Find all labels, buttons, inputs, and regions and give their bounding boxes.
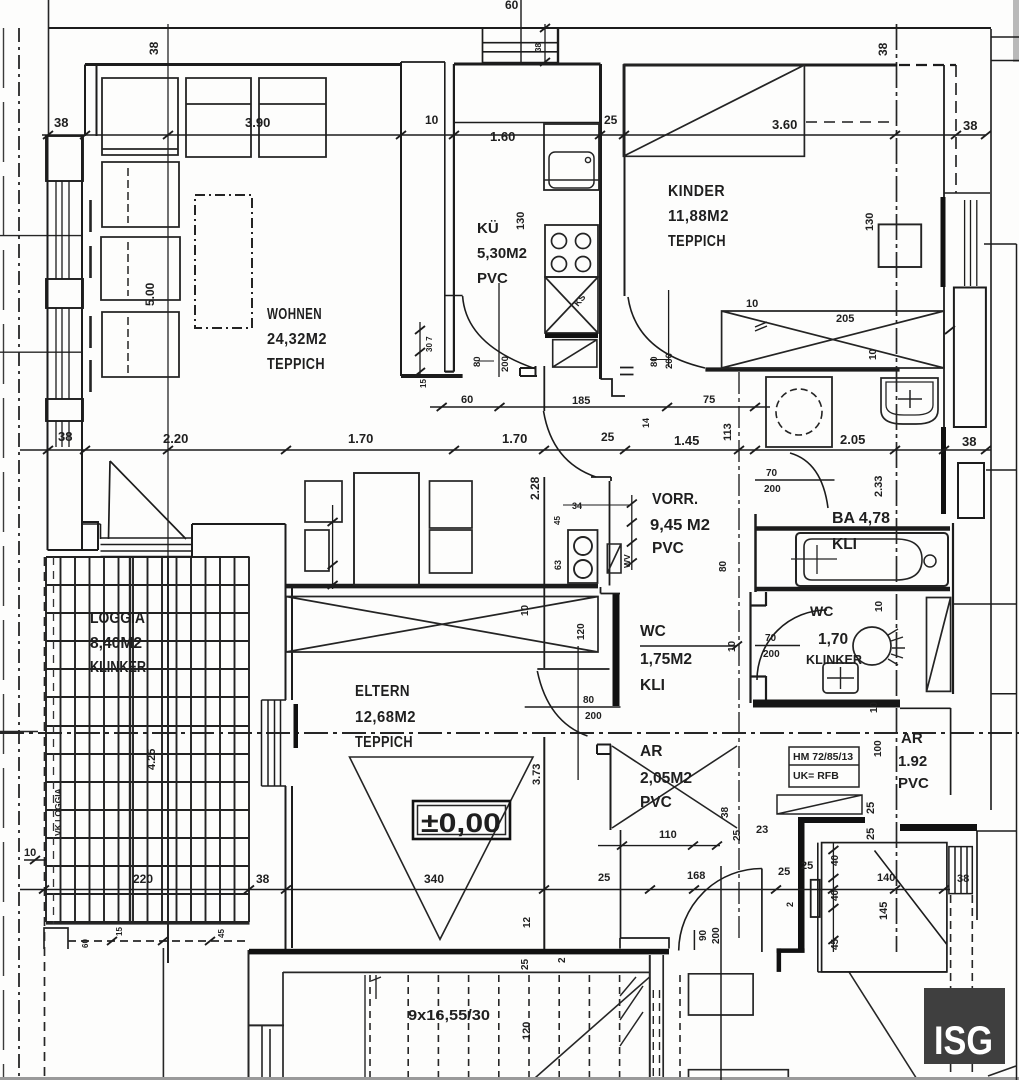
svg-text:2: 2 [557, 957, 568, 963]
kinder right glazing [965, 200, 977, 286]
svg-text:9,45 M2: 9,45 M2 [650, 517, 710, 534]
ar192 right wall [950, 708, 952, 795]
svg-text:PVC: PVC [640, 794, 672, 811]
eltern bottom thick wall [249, 949, 669, 955]
ar192 shelf box [777, 795, 862, 814]
main dim line y890 [20, 889, 950, 891]
ticks y845 [617, 842, 722, 850]
svg-text:80: 80 [649, 356, 660, 367]
kue door dim vertical [498, 283, 500, 377]
kitchen sink tap [585, 157, 590, 162]
svg-text:15: 15 [115, 927, 124, 936]
svg-text:10: 10 [869, 701, 880, 713]
svg-text:PVC: PVC [652, 540, 684, 557]
right band bath pier [958, 463, 984, 518]
kinder door dim vertical [668, 290, 670, 367]
svg-text:200: 200 [763, 649, 780, 660]
svg-text:ELTERN: ELTERN [355, 683, 410, 700]
couch table [195, 195, 252, 328]
bathtub drain [924, 555, 936, 567]
svg-text:38: 38 [58, 429, 72, 444]
svg-text:±0,00: ±0,00 [421, 808, 501, 838]
right edge outer line [990, 29, 992, 810]
eltern door leaf [537, 668, 609, 670]
svg-text:75: 75 [703, 394, 715, 406]
svg-text:120: 120 [576, 623, 587, 640]
svg-text:200: 200 [500, 356, 511, 372]
grid axis vertical x895 dash-dot [896, 24, 898, 952]
entrance door arc [679, 868, 762, 950]
ba door arc [790, 453, 828, 508]
svg-text:25: 25 [604, 113, 618, 127]
dashed ext line y122 [806, 121, 897, 123]
wc-vorr wall thick [613, 594, 620, 706]
right edge far line [1016, 244, 1018, 1080]
kitchen top wall [454, 63, 601, 66]
grid axis vertical x739 dash-dot [738, 372, 740, 939]
kitchen right wall [599, 64, 602, 379]
svg-text:80: 80 [583, 695, 595, 706]
svg-text:1.92: 1.92 [898, 753, 927, 770]
svg-text:110: 110 [659, 829, 677, 841]
dim ticks below loggia [107, 937, 215, 945]
kitchen counter top lines [544, 179, 599, 181]
main dim line y450 [20, 449, 991, 451]
shaft right wall [557, 29, 559, 63]
svg-text:ISG: ISG [934, 1019, 993, 1063]
wc170 door arc [757, 610, 827, 680]
entry dim vertical x833 [832, 843, 834, 952]
entry dim line y845 [598, 845, 720, 847]
bathtub inner [804, 539, 922, 580]
eltern door label line [525, 706, 621, 708]
sofa seat 3 [259, 78, 326, 157]
fridge KS crossed box [545, 277, 598, 333]
svg-text:205: 205 [836, 313, 854, 325]
stair arrow snippet bottom right [988, 1066, 1016, 1076]
svg-text:9x16,55/30: 9x16,55/30 [408, 1007, 490, 1024]
svg-text:BA 4,78: BA 4,78 [832, 510, 890, 527]
bathtub outer [796, 533, 948, 586]
hm box [789, 747, 859, 787]
wc label underline [640, 645, 737, 647]
svg-text:25: 25 [778, 866, 790, 878]
svg-text:38: 38 [147, 41, 161, 55]
ar closet cross [612, 746, 737, 828]
stair hatch bottom left [620, 977, 643, 1046]
wohnen left wall top band [85, 65, 97, 137]
svg-text:25: 25 [732, 829, 743, 841]
svg-text:130: 130 [515, 212, 527, 230]
wc170 left wall inner stubs [751, 592, 767, 703]
vorr west wall x544 [543, 366, 545, 411]
loggia grid horizontals [46, 557, 250, 922]
svg-text:8,40M2: 8,40M2 [90, 635, 142, 652]
main dim line y135 [42, 134, 986, 136]
svg-text:10: 10 [746, 298, 758, 310]
left edge tick y731 [0, 731, 38, 733]
wohnen east wall step [591, 477, 611, 586]
svg-text:2.20: 2.20 [163, 431, 188, 446]
svg-text:145: 145 [878, 902, 890, 920]
kinder top wall [623, 64, 897, 67]
kinder right inner line [955, 65, 957, 193]
page bottom border [0, 1077, 1019, 1080]
shaft ticks [540, 24, 550, 66]
svg-text:TEPPICH: TEPPICH [668, 233, 726, 250]
kitchen sink basin [549, 152, 594, 188]
bathtub crosshair [791, 545, 837, 574]
left glazing lines [56, 181, 69, 447]
vorr top wall left [401, 374, 463, 378]
svg-text:KLINKER: KLINKER [90, 659, 146, 676]
corridor niche step [249, 1024, 285, 1026]
ba basin inner [886, 382, 933, 415]
svg-text:10: 10 [425, 113, 439, 127]
svg-text:70: 70 [765, 633, 777, 644]
svg-text:LOGGIA: LOGGIA [90, 610, 145, 627]
svg-text:100: 100 [873, 740, 884, 757]
wc170 left wall outer [749, 592, 751, 703]
svg-text:12,68M2: 12,68M2 [355, 709, 416, 726]
svg-text:2.05: 2.05 [840, 432, 865, 447]
vestibule box [822, 843, 947, 972]
kinder desk [879, 224, 922, 267]
kinder left wall [624, 65, 626, 296]
svg-text:2.28: 2.28 [528, 476, 542, 500]
dim tick 10 left loggia [24, 859, 46, 861]
wc door label line [755, 645, 800, 647]
svg-text:2.33: 2.33 [873, 476, 885, 497]
kinder right black bar [941, 197, 946, 287]
lower corridor vertical [162, 948, 164, 1078]
ar192 top line [900, 707, 951, 709]
svg-text:140: 140 [877, 872, 895, 884]
vorr dim vertical x631 [631, 495, 633, 570]
door sill hatch right [949, 847, 972, 894]
ba bottom wall [755, 587, 950, 592]
svg-text:KÜ: KÜ [477, 220, 499, 237]
kinder top wall dashes right [899, 64, 956, 66]
ticks x833 [828, 846, 838, 944]
right lower wall vertical [976, 831, 978, 920]
svg-text:3.73: 3.73 [531, 764, 543, 785]
svg-text:38: 38 [957, 873, 969, 885]
svg-text:5,30M2: 5,30M2 [477, 245, 527, 262]
svg-text:40: 40 [830, 889, 841, 901]
stair right wall2 [662, 955, 664, 1080]
kinder right pier [954, 288, 986, 428]
svg-text:TEPPICH: TEPPICH [355, 734, 413, 751]
toilet bowl [853, 627, 891, 665]
ba basin tap [898, 390, 922, 408]
svg-text:23: 23 [756, 824, 768, 836]
svg-text:10: 10 [727, 640, 738, 652]
wc dim arrow [732, 642, 742, 650]
svg-text:200: 200 [664, 353, 675, 369]
corridor niche lines [262, 1025, 270, 1078]
left pier 3 [46, 399, 83, 421]
vestibule inner wall vert [817, 843, 819, 972]
toilet hatch [888, 629, 905, 665]
kinder door label line [650, 359, 668, 361]
stair right wall [649, 955, 651, 1080]
eltern V triangle [350, 757, 534, 939]
svg-text:80: 80 [472, 356, 483, 367]
ba door label line [755, 479, 835, 481]
svg-text:24,32M2: 24,32M2 [267, 331, 327, 348]
svg-text:3.60: 3.60 [772, 117, 797, 132]
svg-text:25: 25 [598, 872, 610, 884]
ticks y890 [39, 886, 949, 894]
svg-text:90: 90 [698, 929, 709, 941]
svg-text:11,88M2: 11,88M2 [668, 208, 729, 225]
ba right wall [952, 523, 954, 694]
svg-text:168: 168 [687, 870, 705, 882]
corridor line x721 [720, 866, 722, 1080]
wall cap left of entrance door [620, 938, 669, 949]
lower verticals left of stairs [653, 990, 659, 1080]
vertical line x521 shaft [520, 0, 522, 64]
eltern window leaf black bar [294, 704, 299, 748]
svg-text:63: 63 [553, 560, 563, 570]
kitchen-wohnen wall band [444, 62, 446, 372]
left wall step to loggia [48, 522, 99, 550]
svg-text:TEPPICH: TEPPICH [267, 356, 325, 373]
svg-text:220: 220 [133, 872, 153, 886]
stove burners [552, 234, 591, 272]
kitchen dim line y407 [430, 406, 770, 408]
svg-text:2: 2 [785, 902, 795, 907]
ticks x631 [627, 500, 637, 567]
svg-text:KLINKER: KLINKER [806, 652, 863, 667]
kue door dim label line [478, 360, 494, 362]
dining chair left [305, 481, 342, 522]
kitchen counter front line [454, 122, 600, 124]
svg-text:10: 10 [520, 604, 531, 616]
svg-text:60: 60 [461, 394, 473, 406]
vorr wall cap piece [520, 366, 537, 377]
sofa seat 1 [102, 78, 178, 155]
left pier 2 [46, 279, 83, 308]
svg-text:45: 45 [217, 929, 226, 938]
grid axis vertical dash-dot left [18, 28, 20, 1080]
kinder bottom wall [705, 367, 899, 371]
kitchen sink unit [544, 124, 599, 190]
kinder door arc [628, 297, 705, 368]
eltern east wall lower [543, 737, 545, 949]
svg-text:25: 25 [865, 828, 877, 840]
ar192 left wall thick [798, 823, 805, 952]
stair start tick [364, 975, 366, 1080]
top outer line [49, 27, 992, 29]
loggia inner dashed line [53, 557, 55, 924]
ar closet top wall step [597, 745, 611, 831]
eltern door arc [537, 671, 587, 736]
ba basin [881, 378, 938, 424]
loggia step box bottom left [44, 928, 68, 949]
svg-text:70: 70 [766, 468, 778, 479]
loggia heavy vertical [129, 557, 131, 922]
right edge crossbars [953, 244, 1017, 831]
svg-text:HM 72/85/13: HM 72/85/13 [793, 751, 853, 763]
svg-text:2,05M2: 2,05M2 [640, 770, 692, 787]
dining chair right 1 [430, 481, 473, 528]
vorr basin unit [568, 530, 598, 583]
entry hall wall thick vert [777, 948, 782, 972]
svg-text:45: 45 [830, 938, 841, 950]
top right corner step [991, 37, 1019, 61]
loggia left dashed edge [44, 557, 46, 1080]
svg-text:120: 120 [521, 1022, 533, 1040]
svg-text:40: 40 [830, 854, 841, 866]
svg-text:KINDER: KINDER [668, 183, 725, 200]
svg-text:10: 10 [868, 348, 879, 360]
svg-text:340: 340 [424, 872, 444, 886]
kitchen right wall step [601, 379, 626, 396]
eltern left wall upper [286, 524, 293, 700]
wohnen top wall [85, 63, 401, 66]
wohnen loggia threshold band [83, 524, 192, 557]
corridor right wall x248 [248, 950, 250, 1078]
svg-text:1.70: 1.70 [502, 431, 527, 446]
eltern wardrobe crossed [286, 597, 598, 653]
grid axis horizontal y733 dash-dot [0, 732, 1019, 734]
radiator dashes left wall [89, 200, 92, 392]
svg-text:UK= RFB: UK= RFB [793, 770, 839, 782]
eltern east wall [543, 477, 545, 668]
kitchen lower cabinet [553, 340, 597, 367]
ticks x333 [328, 518, 338, 589]
lower dashed verticals right [951, 895, 973, 1080]
vestibule tick x951 [945, 326, 955, 334]
toilet cistern cross [827, 667, 854, 689]
washing machine drum [776, 389, 822, 435]
kitchen left dim vertical [419, 322, 421, 376]
wohnen bottom wall [286, 584, 599, 587]
ba left wall [754, 514, 757, 592]
kinder wardrobe arrow marks [755, 322, 767, 331]
wc-vorr wall step top [601, 587, 621, 594]
svg-text:25: 25 [865, 802, 877, 814]
svg-text:25: 25 [520, 958, 531, 970]
right band bath black bar [941, 427, 946, 514]
entrance door leaf [761, 869, 763, 953]
vertical line x48 top [48, 0, 50, 136]
kinder right wall band inner [943, 65, 945, 427]
kitchen-wohnen wall band2 [445, 64, 454, 372]
ar192 bottom thick wall [900, 824, 977, 831]
svg-text:38: 38 [54, 115, 68, 130]
kinder wardrobe 205 crossed [722, 311, 944, 368]
svg-text:130: 130 [864, 213, 876, 231]
stair diagonal arrow right [849, 972, 918, 1080]
svg-text:30 7: 30 7 [425, 336, 434, 352]
svg-text:113: 113 [722, 423, 734, 441]
svg-text:34: 34 [572, 501, 582, 511]
svg-text:60: 60 [81, 939, 90, 948]
svg-text:1,75M2: 1,75M2 [640, 651, 692, 668]
eltern loggia window band [262, 700, 287, 786]
svg-text:38: 38 [962, 434, 976, 449]
armchair 2 [101, 237, 180, 300]
svg-text:1,70: 1,70 [818, 631, 848, 648]
svg-text:12: 12 [522, 916, 533, 928]
shaft top center [483, 29, 559, 63]
eltern left wall lower [286, 786, 293, 950]
svg-text:KLI: KLI [832, 536, 857, 553]
corridor wall x620 [620, 830, 622, 938]
kitchen-wohnen wall x401 [400, 62, 402, 376]
vorr heater [607, 544, 621, 573]
entrance door jamb [693, 930, 695, 950]
svg-text:60: 60 [505, 0, 519, 12]
left edge tick y236 [0, 235, 81, 237]
svg-text:WOHNEN: WOHNEN [267, 306, 322, 323]
stair left wall [282, 972, 284, 1080]
svg-text:14: 14 [641, 418, 651, 428]
dining table [354, 473, 419, 585]
grid axis vertical x168 [167, 24, 169, 963]
ISG logo [924, 988, 1005, 1064]
dining chair right 2 [430, 530, 473, 573]
svg-text:WV: WV [622, 554, 632, 568]
loggia heavy vertical2 [167, 557, 169, 963]
svg-text:38: 38 [963, 118, 977, 133]
wc170 bottom wall [753, 700, 900, 708]
svg-text:VK LOGGIA: VK LOGGIA [53, 788, 63, 836]
scan page edge shade [1013, 0, 1019, 62]
svg-text:38: 38 [876, 42, 890, 56]
svg-text:10: 10 [874, 600, 885, 612]
eltern top wall [286, 587, 598, 589]
svg-text:10: 10 [24, 847, 36, 859]
sofa seat 2 [186, 78, 251, 157]
svg-text:200: 200 [711, 927, 722, 944]
lower corridor box [689, 974, 754, 1015]
kinder door jamb cap [620, 368, 634, 375]
svg-text:WC: WC [810, 603, 833, 619]
svg-text:PVC: PVC [477, 270, 508, 287]
loggia grid verticals [46, 557, 249, 922]
svg-text:80: 80 [718, 560, 729, 572]
svg-text:15: 15 [419, 379, 428, 388]
svg-text:4.25: 4.25 [146, 749, 158, 770]
loggia bottom edge [46, 922, 250, 924]
svg-text:200: 200 [585, 711, 602, 722]
svg-text:1.60: 1.60 [490, 129, 515, 144]
svg-text:KLI: KLI [640, 677, 665, 694]
level mark box inner [418, 806, 506, 835]
left pier 1 [46, 136, 83, 181]
kitchen wall cap y62 [401, 61, 445, 63]
svg-text:38: 38 [256, 872, 270, 886]
svg-text:AR: AR [640, 743, 662, 760]
svg-text:200: 200 [764, 484, 781, 495]
ba top wall [755, 526, 950, 531]
vestibule diagonal [875, 851, 947, 945]
ticks y407 [437, 403, 760, 411]
ar192 top wall thick [798, 817, 865, 823]
svg-text:1.45: 1.45 [674, 433, 699, 448]
loggia door triangle [109, 461, 187, 539]
entry hall wall thick horiz [777, 948, 805, 953]
wohnen door arc [544, 411, 597, 477]
left page edge line [3, 28, 5, 1080]
svg-text:AR: AR [901, 730, 923, 747]
wall wohnen-eltern step [192, 524, 286, 557]
vestibule inner wall horiz [818, 971, 947, 973]
